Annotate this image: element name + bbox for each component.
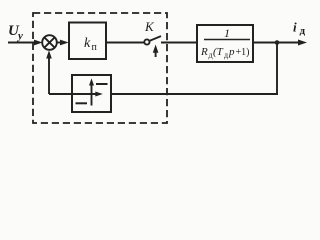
relay x-axis [72,93,99,95]
svg-text:(T: (T [213,46,224,58]
relay upper level dash [96,83,108,85]
node: output branch junction [275,40,280,45]
svg-text:1: 1 [224,26,230,40]
wire: feedback down from node [276,43,278,95]
wire: k_n block to switch [106,42,144,44]
block k_n [69,23,106,60]
svg-text:p: p [228,46,235,58]
node label U_y [8,23,23,42]
svg-text:R: R [200,46,208,58]
svg-text:+1): +1) [236,47,250,58]
relay block [72,75,111,112]
wire: output with arrow [253,42,304,44]
svg-text:д: д [224,51,228,60]
node label i_я [293,20,306,38]
svg-text:K: K [144,19,155,34]
wire: relay output left [49,93,72,95]
wire: feedback up into summing junction [48,53,50,94]
switch K [144,39,149,44]
svg-text:д: д [300,25,306,37]
svg-text:д: д [209,51,213,60]
dashed enclosure box [33,13,167,123]
svg-text:i: i [293,20,297,35]
wire: summing junction to k_n block [57,42,66,44]
wire: input into summing junction [8,42,40,44]
svg-text:у: у [16,30,23,42]
wire: switch to transfer block [161,42,197,44]
summing junction [42,35,57,50]
wire: feedback bottom run to relay [111,93,278,95]
svg-text:п: п [92,42,98,53]
svg-text:k: k [84,36,91,51]
relay y-axis [91,82,93,106]
block 1/(R_я(T_я p+1)) [197,25,253,62]
relay lower level dash [76,102,88,104]
switch actuation arrow [155,50,157,57]
